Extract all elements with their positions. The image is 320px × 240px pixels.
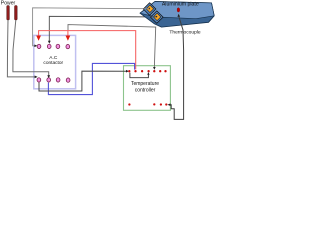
wire heater2 to contactor top terminal 2 bbox=[49, 16, 155, 41]
controller top terminal 7 bbox=[164, 70, 166, 72]
arrowhead into contactor top terminal 1 bbox=[34, 45, 37, 48]
power prong L2 bbox=[15, 6, 18, 21]
wire segment over heater 2 base bbox=[151, 16, 156, 18]
heater 2 element bbox=[153, 13, 160, 20]
power prong L1 bbox=[7, 6, 10, 21]
controller top terminal 6 bbox=[159, 70, 161, 72]
contactor top terminal 2 bbox=[47, 44, 51, 48]
arrowhead into controller terminal 1 bbox=[126, 70, 129, 73]
wire contactor L feed to temperature controller terminal 5 bbox=[68, 25, 156, 68]
grey wire contactor bottom terminal 1 to controller terminal 1 bbox=[39, 71, 126, 91]
wire power L1 to contactor bottom terminal 1 bbox=[7, 20, 34, 77]
blue wire contactor bottom terminal 2 to controller terminal 2 bbox=[48, 63, 134, 94]
wire segment over heater 1 base bbox=[144, 8, 150, 10]
thermocouple junction dot on plate bbox=[177, 8, 180, 12]
svg-text:A.C: A.C bbox=[49, 55, 58, 61]
svg-text:Thermocouple: Thermocouple bbox=[169, 29, 201, 35]
A.C contactor box bbox=[34, 35, 76, 88]
heater 1 base diamond bbox=[143, 3, 156, 15]
arrowhead into controller terminal 5 bbox=[153, 67, 156, 70]
contactor bottom terminal 1 bbox=[37, 78, 41, 82]
contactor bottom terminal 3 bbox=[56, 78, 60, 82]
arrowhead up into controller terminal 4 bbox=[147, 72, 149, 75]
svg-text:Aluminium plate: Aluminium plate bbox=[162, 2, 199, 8]
controller top terminal 4 bbox=[147, 70, 149, 72]
heater 2 base diamond bbox=[151, 11, 164, 23]
red stem to contactor top terminal 4 bbox=[67, 31, 69, 36]
arrowhead up to thermocouple junction bbox=[177, 14, 180, 17]
red arrowhead onto contactor top terminal 1 bbox=[36, 36, 41, 41]
controller bottom terminal 1 bbox=[128, 103, 130, 105]
heater 1 element bbox=[146, 5, 153, 12]
arrowhead into contactor bottom terminal 2 bbox=[47, 75, 50, 78]
red arrowhead onto contactor top terminal 4 bbox=[66, 36, 71, 41]
aluminum plate body side face bbox=[140, 2, 214, 28]
thermocouple wire plate to controller bottom terminal bbox=[169, 16, 184, 119]
svg-text:Temperature: Temperature bbox=[131, 81, 159, 87]
aluminum plate top face bbox=[140, 2, 214, 19]
controller bottom terminal 2 bbox=[153, 103, 155, 105]
controller bottom terminal 4 bbox=[165, 103, 167, 105]
jumper wire controller terminal 1 to terminal 4 bbox=[130, 73, 149, 78]
contactor bottom terminal 2 bbox=[47, 78, 51, 82]
controller top terminal 5 bbox=[153, 70, 155, 72]
controller top terminal 3 bbox=[141, 70, 143, 72]
contactor top terminal 3 bbox=[56, 44, 60, 48]
heater 1 terminal dot bbox=[148, 8, 150, 10]
temperature controller box bbox=[124, 66, 171, 111]
contactor top terminal 4 bbox=[66, 44, 70, 48]
red power wire across contactor top to controller terminal 2 bbox=[39, 31, 136, 70]
svg-text:contactor: contactor bbox=[43, 60, 63, 66]
contactor top terminal 1 bbox=[37, 44, 41, 48]
controller top terminal 1 bbox=[128, 70, 130, 72]
arrowhead into contactor bottom terminal 1 bbox=[35, 76, 38, 79]
svg-text:controller: controller bbox=[135, 87, 156, 93]
arrowhead into controller bottom terminal bbox=[168, 103, 171, 106]
contactor bottom terminal 4 bbox=[66, 78, 70, 82]
wire power L2 to contactor bottom terminal 2 bbox=[13, 20, 49, 76]
controller top terminal 2 bbox=[134, 70, 136, 72]
controller bottom terminal 3 bbox=[160, 103, 162, 105]
arrowhead into contactor top terminal 2 bbox=[48, 41, 51, 44]
wire heater1 to contactor top terminal 1 bbox=[33, 8, 149, 46]
heater 2 terminal dot bbox=[156, 16, 158, 18]
